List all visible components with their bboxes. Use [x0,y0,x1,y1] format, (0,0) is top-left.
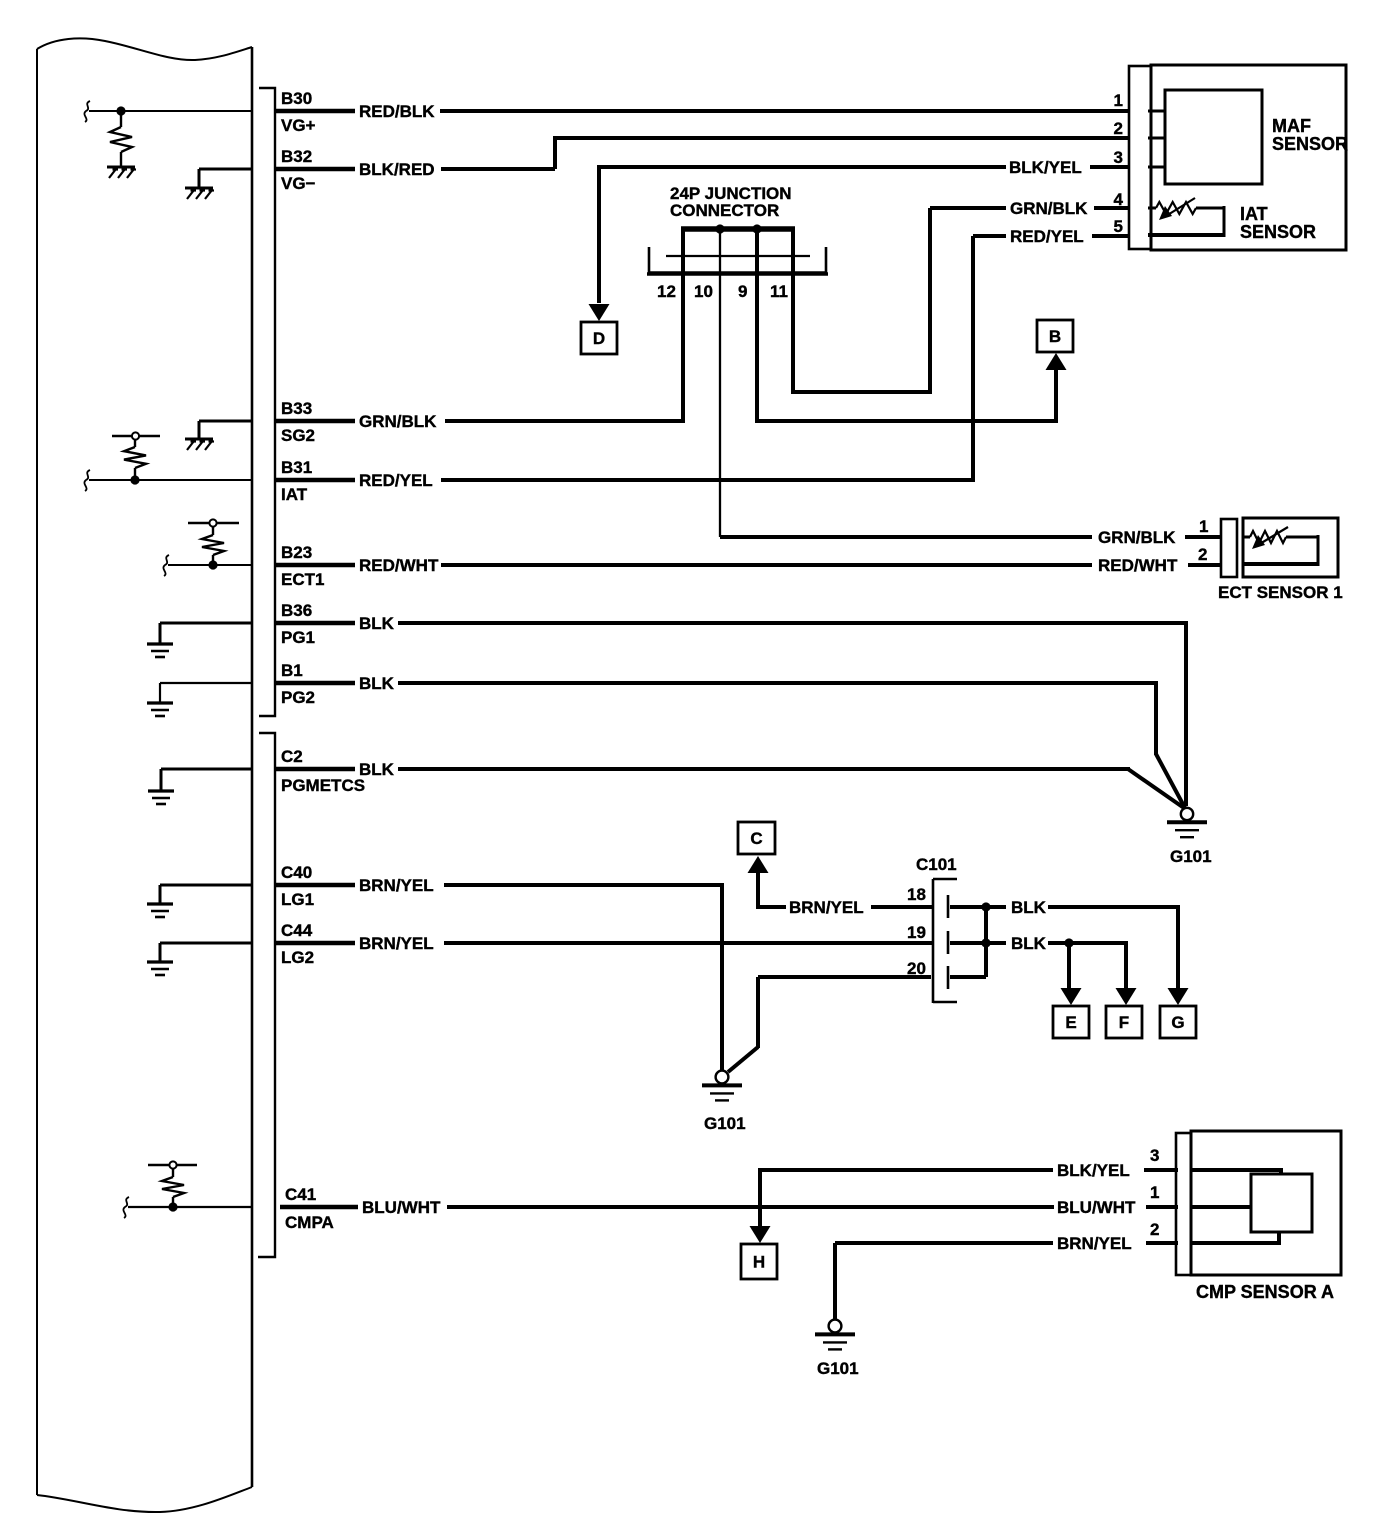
svg-text:BLU/WHT: BLU/WHT [362,1198,441,1217]
svg-text:LG2: LG2 [281,948,314,967]
CMP sensor A box [1191,1131,1341,1275]
pin B1 stub [276,681,355,686]
svg-text:B33: B33 [281,399,312,418]
resistor internal pull-up (B31) [112,436,160,480]
node C40 LG1 internal wire [160,885,252,903]
svg-text:GRN/BLK: GRN/BLK [1010,199,1088,218]
wire BRN/YEL stub at CMP [1146,1241,1178,1245]
node B32 VG- internal wire [199,169,252,187]
svg-text:CMPA: CMPA [285,1213,334,1232]
junction dot on B30 wire [116,106,125,115]
svg-text:ECT SENSOR 1: ECT SENSOR 1 [1218,583,1343,602]
junction dot on B23 wire [208,560,217,569]
node B23 ECT1 internal wire [163,555,252,576]
wire BRN/YEL (CMP pin 2) to G101 [835,1243,1053,1319]
svg-text:VG+: VG+ [281,116,316,135]
label MAF SENSOR [1272,116,1348,154]
svg-text:F: F [1119,1013,1129,1032]
svg-text:9: 9 [738,282,747,301]
svg-text:1: 1 [1150,1183,1159,1202]
svg-text:2: 2 [1150,1220,1159,1239]
svg-text:B36: B36 [281,601,312,620]
wire RED/WHT to ECT pin 2 [441,563,1092,567]
svg-text:D: D [593,329,605,348]
svg-text:IAT: IAT [281,485,308,504]
svg-text:GRN/BLK: GRN/BLK [1098,528,1176,547]
wire C101 pin 19 left (from C44) is above; pin 20 wire to G101 [728,977,931,1072]
svg-text:PG1: PG1 [281,628,315,647]
svg-text:G101: G101 [1170,847,1212,866]
junction dot pin 9 [752,224,761,233]
wire RED/BLK to MAF pin 1 [440,109,1129,113]
wire BRN/YEL stub to C101 pin 18 [871,905,933,909]
ground G101 (CMP) [815,1320,859,1378]
svg-text:4: 4 [1114,190,1124,209]
svg-text:GRN/BLK: GRN/BLK [359,412,437,431]
ground (C44) [147,962,173,975]
MAF sensor box [1151,65,1346,250]
resistor internal pull (B30) [110,111,132,166]
connector box G [1160,1006,1196,1038]
connector box B [1037,320,1073,352]
svg-text:B31: B31 [281,458,312,477]
svg-text:PGMETCS: PGMETCS [281,776,365,795]
pin B31 stub [276,478,355,483]
pin B36 stub [276,621,355,626]
wire GRN/BLK stub at MAF [1094,206,1129,210]
arrow into D [589,304,610,321]
junction dot on C41 wire [168,1202,177,1211]
wire junction pin 12 to B33 [681,229,685,423]
wire BLK from C101 pin 19 [950,943,1128,988]
svg-text:B30: B30 [281,89,312,108]
CMP internal wiring [1191,1170,1283,1243]
svg-text:MAF: MAF [1272,116,1311,136]
24P junction bus bar [681,226,795,232]
svg-text:RED/BLK: RED/BLK [359,102,435,121]
svg-text:1: 1 [1114,91,1123,110]
svg-text:B: B [1049,327,1061,346]
ECM connector bracket C [258,733,275,1257]
svg-text:5: 5 [1114,217,1123,236]
svg-text:2: 2 [1114,119,1123,138]
resistor internal pull-up (B23) [188,523,239,565]
svg-text:3: 3 [1150,1146,1159,1165]
svg-text:RED/YEL: RED/YEL [359,471,433,490]
node B1 PG2 internal wire [160,683,252,702]
connector box D [581,322,617,354]
svg-text:C2: C2 [281,747,303,766]
wire BLK/YEL (MAF pin 3) [599,165,1006,303]
svg-text:BRN/YEL: BRN/YEL [1057,1234,1132,1253]
C101 connector body [933,879,957,1003]
wire BLK/YEL (CMP pin 3) to connector H [759,1168,1053,1228]
wire BLU/WHT stub at CMP [1146,1205,1178,1209]
svg-text:10: 10 [694,282,713,301]
ground (C2) [148,791,174,804]
svg-text:BLK/YEL: BLK/YEL [1009,158,1082,177]
wire C101 pin 20 jumper [950,907,986,977]
ECM box (torn outline) [37,38,252,1512]
wire BLK from B36 to G101 [398,623,1188,806]
node C41 CMPA internal wire [123,1197,252,1218]
svg-text:BLK: BLK [1011,934,1047,953]
svg-text:BLK: BLK [359,760,395,779]
MAF sensing element square [1165,90,1262,184]
ECM connector bracket B [259,88,275,716]
svg-text:2: 2 [1198,545,1207,564]
wire junction pin 9 to connector B [755,229,1058,423]
ground (B1) [147,703,173,716]
svg-text:RED/WHT: RED/WHT [1098,556,1178,575]
internal voltage node circle (B23) [209,519,216,526]
svg-text:BLK/YEL: BLK/YEL [1057,1161,1130,1180]
svg-text:C40: C40 [281,863,312,882]
svg-text:B23: B23 [281,543,312,562]
24P junction connector body [647,247,828,274]
svg-text:12: 12 [657,282,676,301]
junction dot on B31 wire [130,475,139,484]
internal voltage node circle (C41) [169,1161,176,1168]
arrow into F [1116,988,1137,1005]
wire BLK from C2 to G101 [398,769,1184,808]
ground chassis (B32) [185,188,214,199]
arrow into C [748,856,769,873]
wire BRN/YEL from C44 to C101 pin 19 [444,941,933,945]
svg-text:ECT1: ECT1 [281,570,324,589]
arrow into G [1168,988,1189,1005]
CMP harness connector [1176,1133,1191,1275]
ECT sensor 1 box [1243,518,1338,577]
pin C41 stub [280,1205,358,1210]
arrow into E [1061,988,1082,1005]
pin B32 stub [276,167,355,172]
wire BRN/YEL from C40 to G101 [444,885,724,1070]
junction dot pin 10 [715,224,724,233]
svg-text:BLK: BLK [1011,898,1047,917]
svg-text:RED/WHT: RED/WHT [359,556,439,575]
svg-text:1: 1 [1199,517,1208,536]
wire GRN/BLK to junction pin 12 [445,419,683,423]
svg-text:BLK: BLK [359,674,395,693]
ECT harness connector [1221,519,1237,577]
wire BLK from B1 to G101 [398,683,1185,808]
ground chassis (B33) [185,439,214,450]
node B33 SG2 internal wire [199,421,252,438]
node C44 LG2 internal wire [160,943,252,961]
resistor internal pull-up (C41) [148,1165,197,1207]
wire BLK from C101 pin 18 [950,907,1180,988]
svg-text:C101: C101 [916,855,957,874]
connector box H [741,1244,777,1279]
ground (C40) [147,904,173,917]
svg-text:RED/YEL: RED/YEL [1010,227,1084,246]
pin C2 stub [276,767,355,772]
node B30 VG+ internal wire [84,101,252,122]
svg-text:BRN/YEL: BRN/YEL [359,876,434,895]
connector box C [738,822,775,854]
node C2 PGMETCS internal wire [161,769,252,790]
junction dot pin18/jumper [981,902,990,911]
junction dot pin19/E branch [1064,938,1073,947]
svg-text:IAT: IAT [1240,204,1268,224]
svg-text:C44: C44 [281,921,313,940]
svg-text:BLU/WHT: BLU/WHT [1057,1198,1136,1217]
svg-text:G: G [1171,1013,1184,1032]
svg-text:SENSOR: SENSOR [1240,222,1316,242]
svg-text:BLK: BLK [359,614,395,633]
svg-text:BLK/RED: BLK/RED [359,160,435,179]
svg-text:G101: G101 [704,1114,746,1133]
svg-text:B1: B1 [281,661,303,680]
pin 1 stub (ECT) [1185,535,1221,539]
svg-text:G101: G101 [817,1359,859,1378]
svg-text:3: 3 [1114,148,1123,167]
svg-text:BRN/YEL: BRN/YEL [789,898,864,917]
svg-text:BRN/YEL: BRN/YEL [359,934,434,953]
pin B23 stub [276,563,355,568]
ground (B36) [147,644,173,657]
arrow into H [750,1226,771,1243]
wire BLK/YEL stub at MAF [1090,165,1129,169]
wire RED/YEL stub at MAF [1092,234,1129,238]
wire RED/YEL to MAF pin 5 [441,236,1006,482]
svg-text:PG2: PG2 [281,688,315,707]
pin C44 stub [276,941,355,946]
svg-text:CMP SENSOR A: CMP SENSOR A [1196,1282,1334,1302]
arrow into B [1046,353,1067,370]
wire junction pin 11 to GRN/BLK [791,208,1006,394]
wire BLK/YEL stub at CMP [1144,1168,1178,1172]
svg-text:11: 11 [770,282,788,301]
wire BLK/RED to MAF pin 2 (with step up) [441,136,1129,169]
connector box F [1106,1006,1142,1038]
pin C40 stub [276,883,355,888]
svg-text:C: C [750,829,762,848]
svg-text:SENSOR: SENSOR [1272,134,1348,154]
internal voltage node circle (B31) [132,432,139,439]
IAT thermistor element [1148,198,1224,237]
pin B33 stub [276,419,355,424]
node B36 PG1 internal wire [160,623,252,643]
svg-text:VG−: VG− [281,174,316,193]
svg-text:H: H [753,1253,765,1272]
ground chassis (B30 resistor) [107,167,136,178]
junction dot pin19/jumper [981,938,990,947]
wire branch to E [1067,943,1071,988]
24P junction connector label [670,184,792,220]
svg-text:LG1: LG1 [281,890,314,909]
svg-text:CONNECTOR: CONNECTOR [670,201,779,220]
wire BLU/WHT to CMP pin 1 [447,1205,1054,1209]
connector box E [1053,1006,1089,1038]
svg-text:SG2: SG2 [281,426,315,445]
svg-text:19: 19 [907,923,926,942]
CMP pickup element square [1251,1174,1312,1232]
pin 2 stub (ECT) [1188,563,1221,567]
wire GRN/BLK to ECT pin 1 (from junction pin 10) [720,535,1092,539]
svg-text:B32: B32 [281,147,312,166]
svg-text:C41: C41 [285,1185,316,1204]
label IAT SENSOR [1240,204,1316,242]
node B31 IAT internal wire [84,470,252,491]
MAF internal pin stubs [1148,111,1165,167]
svg-text:E: E [1065,1013,1076,1032]
wire BRN/YEL to connector C [758,873,786,909]
wire junction pin 10 down [719,229,721,537]
ground G101 (right) [1167,808,1212,866]
ECT thermistor element [1243,527,1318,566]
pin B30 stub [276,109,355,114]
svg-text:18: 18 [907,885,926,904]
ground G101 (below C40) [702,1071,746,1133]
MAF sensor harness connector [1129,66,1151,249]
